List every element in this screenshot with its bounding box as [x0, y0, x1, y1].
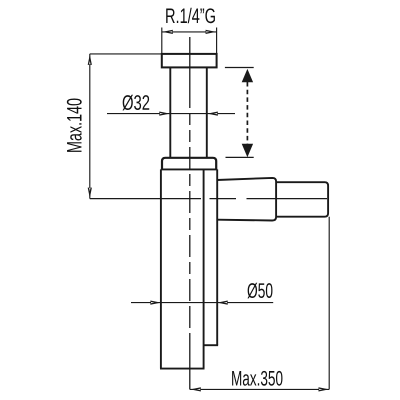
outlet end section	[276, 182, 328, 217]
label O32	[123, 95, 150, 111]
dashed height-range arrow	[225, 68, 254, 158]
top flange	[162, 54, 217, 68]
dimension O50	[131, 302, 273, 304]
dimension R.1/4"G arrowheads	[162, 30, 216, 34]
wire: horizontal centre line of outlet	[90, 198, 327, 200]
dimension Max.140	[90, 54, 162, 199]
dimension Max.350	[190, 217, 329, 390]
wire: vertical centre line of trap	[189, 37, 191, 389]
label R.1/4"G	[166, 8, 215, 23]
label O50	[247, 283, 272, 299]
dimension O32	[107, 113, 235, 115]
dimension R.1/4"G extension lines	[162, 28, 217, 54]
inlet pipe	[170, 67, 207, 157]
label Max.350	[232, 371, 282, 386]
nut	[162, 158, 216, 170]
outlet tapered section	[217, 178, 276, 221]
body	[160, 169, 218, 368]
label Max.140	[67, 99, 82, 152]
